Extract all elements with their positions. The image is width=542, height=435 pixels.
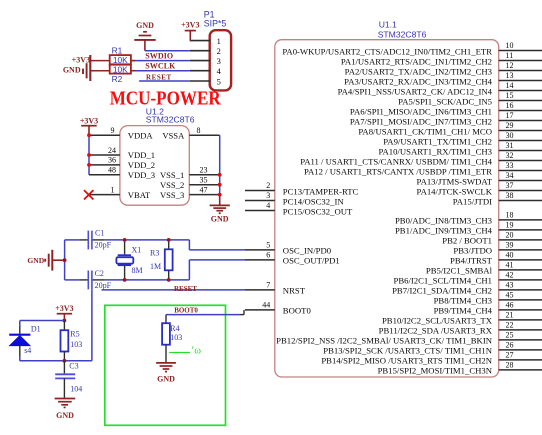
svg-text:1: 1 [111, 185, 115, 194]
ground GND (bottom) [55, 399, 76, 420]
svg-text:BOOT0: BOOT0 [283, 306, 312, 316]
ground GND (R4) [156, 363, 176, 384]
wire U1.1 pin 11 [499, 60, 542, 62]
wire OSC_OUT jog [189, 260, 245, 280]
svg-text:C1: C1 [95, 229, 104, 238]
svg-text:26: 26 [506, 340, 514, 349]
connector P1 [210, 30, 231, 90]
svg-text:RESET: RESET [174, 285, 197, 293]
wire U1.1 pin 13 [499, 80, 542, 82]
svg-text:SWCLK: SWCLK [145, 62, 176, 71]
junction [167, 238, 171, 242]
svg-text:10K: 10K [113, 64, 128, 74]
wire U1.1 pin 22 [499, 329, 542, 331]
svg-text:42: 42 [506, 270, 514, 279]
svg-text:37: 37 [506, 181, 514, 190]
svg-text:4: 4 [266, 201, 270, 210]
svg-text:17: 17 [506, 111, 514, 120]
svg-text:103: 103 [170, 333, 182, 342]
svg-text:STM32C8T6: STM32C8T6 [378, 30, 427, 40]
highlight green box [105, 305, 226, 425]
svg-text:18: 18 [506, 210, 514, 219]
svg-text:R2: R2 [112, 74, 123, 84]
C1 labels [95, 229, 112, 250]
wire U1.2 pin 48 [89, 174, 120, 176]
svg-text:VSS_3: VSS_3 [160, 190, 184, 200]
svg-text:39: 39 [506, 240, 514, 249]
svg-text:20pF: 20pF [95, 241, 112, 250]
wire U1.1 pin 5 stub [245, 249, 275, 251]
wire +3V3 rail U1.2 [88, 135, 90, 175]
diode D1 [9, 321, 30, 361]
wire net pin2 to GND [145, 50, 190, 52]
svg-text:PA13/JTMS-SWDAT: PA13/JTMS-SWDAT [417, 176, 493, 186]
svg-text:12: 12 [506, 61, 514, 70]
svg-text:U1.1: U1.1 [379, 20, 397, 30]
U1.1 right pins PA0-PA15 [282, 41, 542, 206]
svg-text:45: 45 [506, 290, 514, 299]
svg-text:+3V3: +3V3 [55, 304, 73, 313]
svg-text:PB12/SPI2_NSS /I2C2_SMBAl/ USA: PB12/SPI2_NSS /I2C2_SMBAl/ USART3_CK/ TI… [276, 336, 493, 346]
svg-text:PA11 / USART1_CTS/CANRX/ USBDM: PA11 / USART1_CTS/CANRX/ USBDM/ TIM1_CH4 [300, 156, 492, 166]
resistor R1 [90, 55, 135, 65]
wire net SWCLK [131, 70, 190, 72]
wire U1.2 pin 23 [189, 174, 219, 176]
svg-text:2: 2 [266, 181, 270, 190]
svg-text:PA10/USART1_RX/TIM1_CH3: PA10/USART1_RX/TIM1_CH3 [378, 146, 492, 156]
U1.1 designator label [378, 20, 427, 40]
crystal X1 [116, 240, 133, 280]
svg-text:PC14/OSC32_IN: PC14/OSC32_IN [283, 196, 345, 206]
svg-text:PA7/SPI1_MOSI/ADC_IN7/TIM3_CH2: PA7/SPI1_MOSI/ADC_IN7/TIM3_CH2 [350, 116, 492, 126]
U1.2 designator label [146, 106, 195, 124]
wire U1.1 pin 6 stub [245, 259, 275, 261]
wire U1.1 pin 19 [499, 229, 542, 231]
wire net RESET (to U1.1 pin7) [102, 289, 246, 291]
wire net SWDIO [131, 60, 190, 62]
svg-text:RESET: RESET [146, 73, 172, 81]
wire U1.2 pin 8 (VSSA) [189, 134, 219, 136]
svg-text:PA12 / USART1_RTS/CANTX /USBDP: PA12 / USART1_RTS/CANTX /USBDP /TIM1_ETR [304, 166, 492, 176]
svg-text:PA1/USART2_RTS/ADC_IN1/TIM2_CH: PA1/USART2_RTS/ADC_IN1/TIM2_CH2 [341, 56, 492, 66]
wire P1 pin 4 stub [190, 70, 211, 72]
svg-text:31: 31 [506, 141, 514, 150]
svg-text:35: 35 [200, 176, 208, 185]
svg-text:PA9/USART1_TX/TIM1_CH2: PA9/USART1_TX/TIM1_CH2 [383, 136, 492, 146]
svg-text:VBAT: VBAT [128, 190, 151, 200]
svg-text:PC13/TAMPER-RTC: PC13/TAMPER-RTC [283, 186, 359, 196]
wire bottom rail [105, 279, 190, 281]
svg-text:+3V3: +3V3 [181, 21, 199, 30]
wire U1.1 pin 37 [499, 190, 542, 192]
wire U1.1 pin 39 [499, 249, 542, 251]
wire U1.1 pin 7 stub [245, 289, 275, 291]
power port +3V3 (bottom) [55, 304, 73, 321]
svg-text:BOOT0: BOOT0 [174, 307, 198, 315]
svg-text:PB11/I2C2_SDA /USART3_RX: PB11/I2C2_SDA /USART3_RX [379, 326, 493, 336]
wire U1.1 pin 28 [499, 369, 542, 371]
svg-text:14: 14 [506, 81, 514, 90]
svg-text:25: 25 [506, 330, 514, 339]
junction [87, 133, 91, 137]
svg-text:48: 48 [108, 166, 116, 175]
svg-text:47: 47 [200, 185, 208, 194]
wire left rail vertical (C1/C2 left) [64, 240, 66, 280]
junction [63, 359, 67, 363]
wire U1.2 pin 36 [89, 164, 120, 166]
svg-text:GND: GND [27, 256, 44, 265]
ground GND rotated (left of R2) [63, 55, 90, 81]
wire U1.1 pin 30 [499, 140, 542, 142]
resistor R4 [162, 315, 170, 363]
svg-text:PB13/SPI2_SCK /USART3_CTS/ TIM: PB13/SPI2_SCK /USART3_CTS/ TIM1_CH1N [323, 346, 492, 356]
wire top rail [105, 239, 190, 241]
svg-text:43: 43 [506, 280, 514, 289]
svg-text:PA6/SPI1_MISO/ADC_IN6/TIM3_CH1: PA6/SPI1_MISO/ADC_IN6/TIM3_CH1 [350, 106, 492, 116]
svg-text:VSS_1: VSS_1 [160, 170, 184, 180]
svg-text:9: 9 [111, 126, 115, 135]
svg-text:30: 30 [506, 131, 514, 140]
svg-text:GND: GND [63, 66, 81, 75]
U1.2 pin names [128, 130, 185, 199]
wire U1.1 pin 27 [499, 359, 542, 361]
wire OSC_IN jog [189, 240, 245, 250]
svg-text:PA5/SPI1_SCK/ADC_IN5: PA5/SPI1_SCK/ADC_IN5 [398, 96, 492, 106]
wire U1.1 pin 3 stub [245, 200, 275, 202]
svg-text:PA14/JTCK-SWCLK: PA14/JTCK-SWCLK [417, 186, 493, 196]
wire P1 pin 1 stub [190, 40, 211, 42]
wire U1.1 pin 2 stub [245, 190, 275, 192]
svg-text:46: 46 [506, 300, 514, 309]
ground GND (below U1.2) [210, 195, 230, 224]
svg-text:44: 44 [262, 300, 270, 309]
wire U1.1 pin 25 [499, 339, 542, 341]
wire U1.1 pin 16 [499, 110, 542, 112]
svg-text:X1: X1 [132, 245, 142, 254]
svg-text:GND: GND [211, 215, 229, 224]
svg-text:PA8/USART1_CK/TIM1_CH1/ MCO: PA8/USART1_CK/TIM1_CH1/ MCO [358, 126, 492, 136]
svg-text:VSSA: VSSA [162, 130, 185, 140]
svg-text:4: 4 [217, 66, 222, 76]
wire U1.2 pin 47 [189, 194, 219, 196]
svg-text:7: 7 [266, 280, 270, 289]
svg-text:1M: 1M [150, 262, 161, 271]
wire U1.1 pin 44 stub [245, 309, 275, 311]
wire U1.1 pin 14 [499, 90, 542, 92]
wire U1.1 pin 32 [499, 160, 542, 162]
svg-text:+3V3: +3V3 [80, 116, 98, 125]
junction [123, 238, 127, 242]
op-amp U1.2 box [120, 126, 189, 206]
wire U1.1 pin 42 [499, 279, 542, 281]
wire U1.1 pin 38 [499, 200, 542, 202]
wire VSS rail (blue vertical) [219, 135, 221, 194]
svg-text:PA4/SPI1_NSS/USART2_CK/ ADC12_: PA4/SPI1_NSS/USART2_CK/ ADC12_IN4 [338, 86, 493, 96]
svg-text:33: 33 [506, 161, 514, 170]
svg-text:40: 40 [506, 250, 514, 259]
IC U1.1 box [275, 40, 499, 377]
wire U1.1 pin 12 [499, 70, 542, 72]
svg-text:20: 20 [506, 230, 514, 239]
wire C2 branch vertical [91, 289, 93, 361]
svg-text:23: 23 [200, 166, 208, 175]
wire U1.1 pin 29 [499, 130, 542, 132]
svg-text:R4: R4 [170, 324, 179, 333]
green annotation [169, 346, 201, 357]
C3 labels [69, 362, 82, 394]
svg-text:OSC_OUT/PD1: OSC_OUT/PD1 [283, 256, 340, 266]
power port +3V3 (U1.2) [80, 116, 98, 135]
svg-text:D1: D1 [31, 324, 41, 333]
svg-text:13: 13 [506, 71, 514, 80]
svg-text:10: 10 [506, 41, 514, 50]
svg-text:103: 103 [70, 340, 82, 349]
capacitor C1 [65, 231, 105, 250]
wire U1.1 pin 45 [499, 299, 542, 301]
wire U1.1 pin 41 [499, 269, 542, 271]
svg-text:PA0-WKUP/USART2_CTS/ADC12_IN0/: PA0-WKUP/USART2_CTS/ADC12_IN0/TIM2_CH1_E… [282, 46, 492, 56]
wire U1.1 pin 10 [499, 50, 542, 52]
svg-text:PB2 / BOOT1: PB2 / BOOT1 [442, 236, 492, 246]
svg-text:16: 16 [506, 101, 514, 110]
svg-text:3: 3 [266, 191, 270, 200]
svg-text:20pF: 20pF [95, 281, 112, 290]
svg-text:11: 11 [506, 51, 514, 60]
capacitor C3 [55, 361, 75, 398]
svg-text:SWDIO: SWDIO [145, 52, 173, 61]
svg-text:PB1/ADC_IN9/TIM3_CH4: PB1/ADC_IN9/TIM3_CH4 [395, 226, 493, 236]
wire U1.1 pin 18 [499, 219, 542, 221]
svg-text:34: 34 [506, 171, 514, 180]
X1 labels [132, 245, 143, 275]
svg-text:28: 28 [506, 360, 514, 369]
junction [123, 278, 127, 282]
junction [63, 319, 67, 323]
svg-text:24: 24 [108, 146, 116, 155]
svg-text:R1: R1 [112, 46, 123, 56]
svg-text:GND: GND [56, 411, 74, 420]
junction [87, 153, 91, 157]
wire U1.1 pin 15 [499, 100, 542, 102]
P1 designator label [204, 10, 227, 29]
svg-text:PA3/USART2_RX/ADC_IN3/TIM2_CH4: PA3/USART2_RX/ADC_IN3/TIM2_CH4 [344, 76, 492, 86]
svg-text:PB8/TIM4_CH3: PB8/TIM4_CH3 [434, 296, 492, 306]
R3 labels [150, 249, 161, 271]
svg-text:SIP*5: SIP*5 [204, 18, 227, 28]
svg-text:PB14/SPI2_MISO /USART3_RTS TIM: PB14/SPI2_MISO /USART3_RTS TIM1_CH2N [321, 356, 492, 366]
svg-text:VDD_2: VDD_2 [128, 160, 155, 170]
wire U1.1 pin 17 [499, 120, 542, 122]
svg-text:PB4/JTRST: PB4/JTRST [450, 256, 493, 266]
wire P1 pin 5 stub [190, 80, 211, 82]
svg-text:R5: R5 [70, 330, 79, 339]
svg-text:27: 27 [506, 350, 514, 359]
svg-text:C2: C2 [95, 269, 104, 278]
wire U1.2 pin 24 [89, 154, 120, 156]
R5 labels [70, 330, 82, 349]
wire U1.1 pin 20 [499, 239, 542, 241]
wire U1.1 pin 40 [499, 259, 542, 261]
wire U1.2 pin 35 [189, 184, 219, 186]
svg-text:PB5/I2C1_SMBAl: PB5/I2C1_SMBAl [426, 266, 493, 276]
svg-text:2: 2 [217, 46, 221, 56]
capacitor C2 [65, 271, 105, 290]
svg-text:R3: R3 [150, 249, 159, 258]
svg-text:GND: GND [136, 21, 154, 30]
svg-text:VDD_1: VDD_1 [128, 150, 155, 160]
svg-text:PB10/I2C2_SCL/USART3_TX: PB10/I2C2_SCL/USART3_TX [382, 316, 493, 326]
no-connect X on VBAT [84, 190, 93, 199]
junction [87, 163, 91, 167]
svg-text:C3: C3 [69, 362, 78, 371]
svg-text:1: 1 [217, 36, 221, 46]
resistor R5 [61, 321, 69, 361]
svg-text:21: 21 [506, 310, 514, 319]
svg-text:104: 104 [70, 384, 82, 393]
svg-text:15: 15 [506, 91, 514, 100]
ground GND rotated (crystal rail) [27, 250, 64, 271]
svg-text:29: 29 [506, 121, 514, 130]
svg-text:s4: s4 [24, 346, 31, 355]
svg-text:MCU-POWER: MCU-POWER [110, 88, 221, 110]
svg-text:5: 5 [217, 76, 221, 86]
svg-text:STM32C8T6: STM32C8T6 [146, 115, 195, 125]
wire net RESET (to P1 pin5) [139, 80, 190, 82]
svg-text:PA15/JTDI: PA15/JTDI [453, 196, 492, 206]
wire U1.1 pin 33 [499, 170, 542, 172]
wire U1.1 pin 34 [499, 180, 542, 182]
ground GND (P1 pin2) [134, 21, 155, 51]
wire P1 pin 2 stub [190, 50, 211, 52]
C2 labels [95, 269, 112, 290]
svg-text:19: 19 [506, 220, 514, 229]
svg-text:GND: GND [157, 374, 175, 383]
svg-text:PB7/I2C1_SDA/TIM4_CH2: PB7/I2C1_SDA/TIM4_CH2 [392, 286, 492, 296]
junction [63, 258, 67, 262]
svg-text:36: 36 [108, 156, 116, 165]
wire U1.1 pin 31 [499, 150, 542, 152]
wire U1.2 pin 9 [89, 134, 120, 136]
wire U1.2 pin 1 (VBAT) [88, 194, 120, 196]
svg-text:38: 38 [506, 191, 514, 200]
svg-text:6: 6 [266, 250, 270, 259]
wire P1 pin 3 stub [190, 60, 211, 62]
wire U1.1 pin 46 [499, 309, 542, 311]
svg-text:VDD_3: VDD_3 [128, 170, 155, 180]
svg-text:VDDA: VDDA [128, 130, 154, 140]
U1.1 left pins [245, 181, 359, 316]
resistor R3 [165, 240, 173, 280]
wire U1.1 pin 21 [499, 319, 542, 321]
R4 labels [170, 324, 182, 342]
U1.1 right pins PB0-PB15 [276, 210, 542, 375]
wire U1.1 pin 26 [499, 349, 542, 351]
resistor R2 [90, 64, 135, 74]
svg-text:41: 41 [506, 260, 514, 269]
wire U1.1 pin 4 stub [245, 210, 275, 212]
svg-text:PB6/I2C1_SCL/TIM4_CH1: PB6/I2C1_SCL/TIM4_CH1 [394, 276, 492, 286]
wire +3V3 to D1 [20, 320, 65, 322]
power port +3V3 (P1 pin1) [181, 21, 199, 41]
svg-text:22: 22 [506, 320, 514, 329]
junction [218, 173, 222, 177]
svg-text:8: 8 [197, 126, 201, 135]
svg-text:OSC_IN/PD0: OSC_IN/PD0 [283, 246, 332, 256]
svg-text:PC15/OSC32_OUT: PC15/OSC32_OUT [283, 206, 353, 216]
junction [167, 278, 171, 282]
wire bottom junction row [20, 360, 92, 362]
svg-text:VSS_2: VSS_2 [160, 180, 184, 190]
junction [218, 183, 222, 187]
svg-text:PB9/TIM4_CH4: PB9/TIM4_CH4 [434, 306, 493, 316]
svg-text:8M: 8M [132, 266, 143, 275]
svg-text:5: 5 [266, 240, 270, 249]
junction [218, 193, 222, 197]
D1 labels [24, 324, 40, 354]
svg-text:PA2/USART2_TX/ADC_IN2/TIM2_CH3: PA2/USART2_TX/ADC_IN2/TIM2_CH3 [345, 66, 492, 76]
svg-text:32: 32 [506, 151, 514, 160]
svg-text:PB15/SPI2_MOSI/TIM1_CH3N: PB15/SPI2_MOSI/TIM1_CH3N [378, 366, 493, 376]
wire net BOOT0 [166, 310, 244, 315]
svg-text:PB3/JTDO: PB3/JTDO [453, 246, 492, 256]
svg-text:ʼω: ʼω [191, 346, 201, 357]
svg-text:NRST: NRST [283, 286, 306, 296]
svg-text:PB0/ADC_IN8/TIM3_CH3: PB0/ADC_IN8/TIM3_CH3 [395, 216, 492, 226]
svg-text:3: 3 [217, 56, 221, 66]
wire U1.1 pin 43 [499, 289, 542, 291]
